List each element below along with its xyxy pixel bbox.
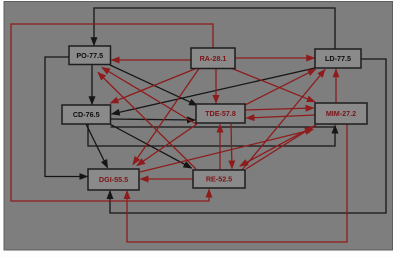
wire RA to LD: [235, 57, 314, 59]
wire MIM to DGI bottom loop: [127, 124, 347, 242]
node PO-77.5: [69, 46, 111, 65]
wire LD to CD: [112, 68, 315, 114]
wire CD to MIM second segment: [111, 126, 335, 128]
wire RE to PO: [98, 73, 196, 170]
wire MIM to TDE: [247, 115, 316, 118]
node MIM-27.2: [315, 103, 367, 124]
node RA-28.1: [191, 48, 235, 69]
wire RA to RE left loop: [11, 24, 213, 201]
wire LD to PO top loop: [94, 8, 335, 49]
wire RE to LD: [242, 70, 325, 171]
wire PO to TDE: [110, 65, 197, 105]
wire CD to DGI: [86, 124, 108, 168]
wire CD to RE: [111, 125, 192, 169]
wire RE to MIM: [246, 127, 314, 170]
node TDE-57.8: [196, 104, 245, 123]
svg-text:PO-77.5: PO-77.5: [76, 51, 103, 60]
wire RE to TDE: [219, 125, 221, 171]
wire PO to DGI left loop: [45, 57, 87, 177]
wire CD to TDE: [111, 119, 196, 120]
wire RA to CD: [111, 69, 197, 104]
wire PO to CD: [91, 65, 93, 105]
wire DGI to MIM: [140, 130, 313, 173]
wire RA to PO: [112, 59, 192, 61]
wire RE to DGI: [141, 178, 194, 180]
svg-text:RA-28.1: RA-28.1: [200, 54, 227, 63]
wire MIM to RE: [240, 125, 316, 166]
node CD-76.5: [62, 105, 111, 124]
svg-text:CD-76.5: CD-76.5: [73, 110, 100, 119]
svg-text:RE-52.5: RE-52.5: [206, 175, 232, 184]
svg-text:DGI-55.5: DGI-55.5: [99, 175, 128, 184]
node LD-77.5: [315, 49, 361, 68]
wire LD to DGI right loop: [110, 59, 386, 213]
wire MIM to LD: [335, 69, 337, 103]
wire RA to DGI: [133, 69, 199, 165]
wire RA to MIM: [232, 69, 315, 102]
svg-text:LD-77.5: LD-77.5: [325, 54, 351, 63]
wire RA to TDE: [215, 69, 217, 104]
wire TDE to MIM: [245, 108, 314, 110]
wire TDE to LD: [245, 69, 316, 105]
node DGI-55.5: [88, 169, 139, 190]
svg-text:TDE-57.8: TDE-57.8: [205, 109, 236, 118]
svg-text:MIM-27.2: MIM-27.2: [326, 109, 356, 118]
wire TDE to PO: [102, 68, 196, 125]
wire TDE to DGI: [137, 124, 197, 166]
wire TDE to RE: [231, 124, 232, 169]
node RE-52.5: [193, 170, 245, 188]
wire CD to MIM: [88, 124, 335, 146]
